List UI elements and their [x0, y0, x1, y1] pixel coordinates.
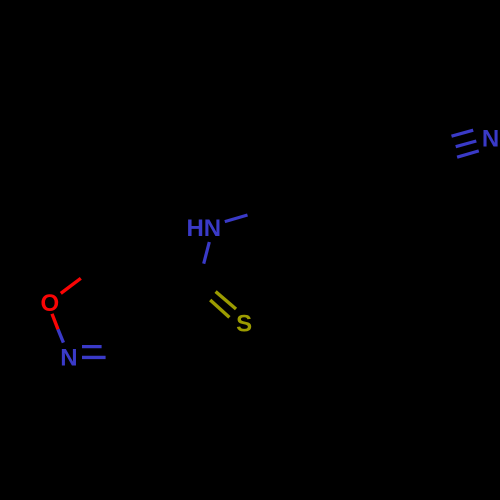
bond O1-N2 (N half, blue)	[58, 329, 63, 342]
nitrile triple bond bottom line (N half, blue)	[457, 151, 479, 157]
bond C6=S line B (S half, yellow)	[210, 300, 229, 317]
svg-text:N: N	[60, 345, 77, 372]
svg-text:O: O	[40, 290, 59, 317]
atom N2 (isoxazole nitrogen)	[60, 345, 77, 372]
bond N2=C3 main line (N half, blue)	[82, 356, 106, 359]
bond N7-C6 thioamide (N half, blue)	[204, 242, 210, 264]
atom S (thione sulfur)	[236, 311, 252, 338]
svg-text:N: N	[482, 125, 499, 152]
atom O1 (isoxazole oxygen)	[40, 290, 59, 317]
bond N2=C3 inner line (N half, blue)	[82, 345, 102, 348]
bond C6=S line A (S half, yellow)	[216, 292, 236, 309]
nitrile triple bond middle line (N half, blue)	[456, 141, 477, 147]
bond O1-N2 (O half, red)	[52, 314, 58, 330]
bond N7-C1 phenyl (N half, blue)	[225, 215, 248, 222]
atom N7 amide label HN	[186, 215, 221, 242]
svg-text:S: S	[236, 311, 252, 338]
atom N9 (nitrile nitrogen)	[482, 125, 499, 152]
bond O1-C5 (O half, red)	[61, 278, 81, 293]
nitrile triple bond top line (N half, blue)	[452, 130, 474, 136]
svg-text:HN: HN	[186, 215, 221, 242]
